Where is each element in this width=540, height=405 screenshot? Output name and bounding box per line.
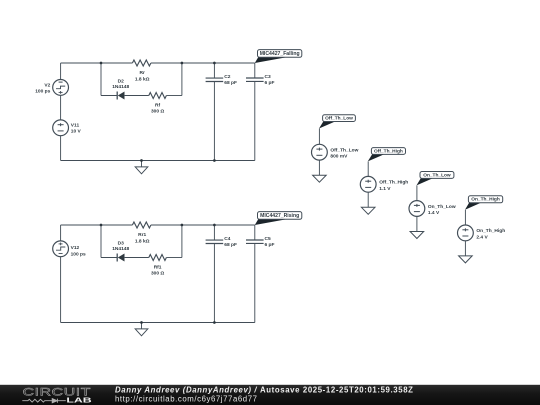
svg-text:Danny Andreev (DannyAndreev) /: Danny Andreev (DannyAndreev) / Autosave … <box>115 386 414 395</box>
svg-text:LAB: LAB <box>66 396 91 404</box>
svg-text:http://circuitlab.com/c6y67j77: http://circuitlab.com/c6y67j77a6d77 <box>115 395 258 404</box>
